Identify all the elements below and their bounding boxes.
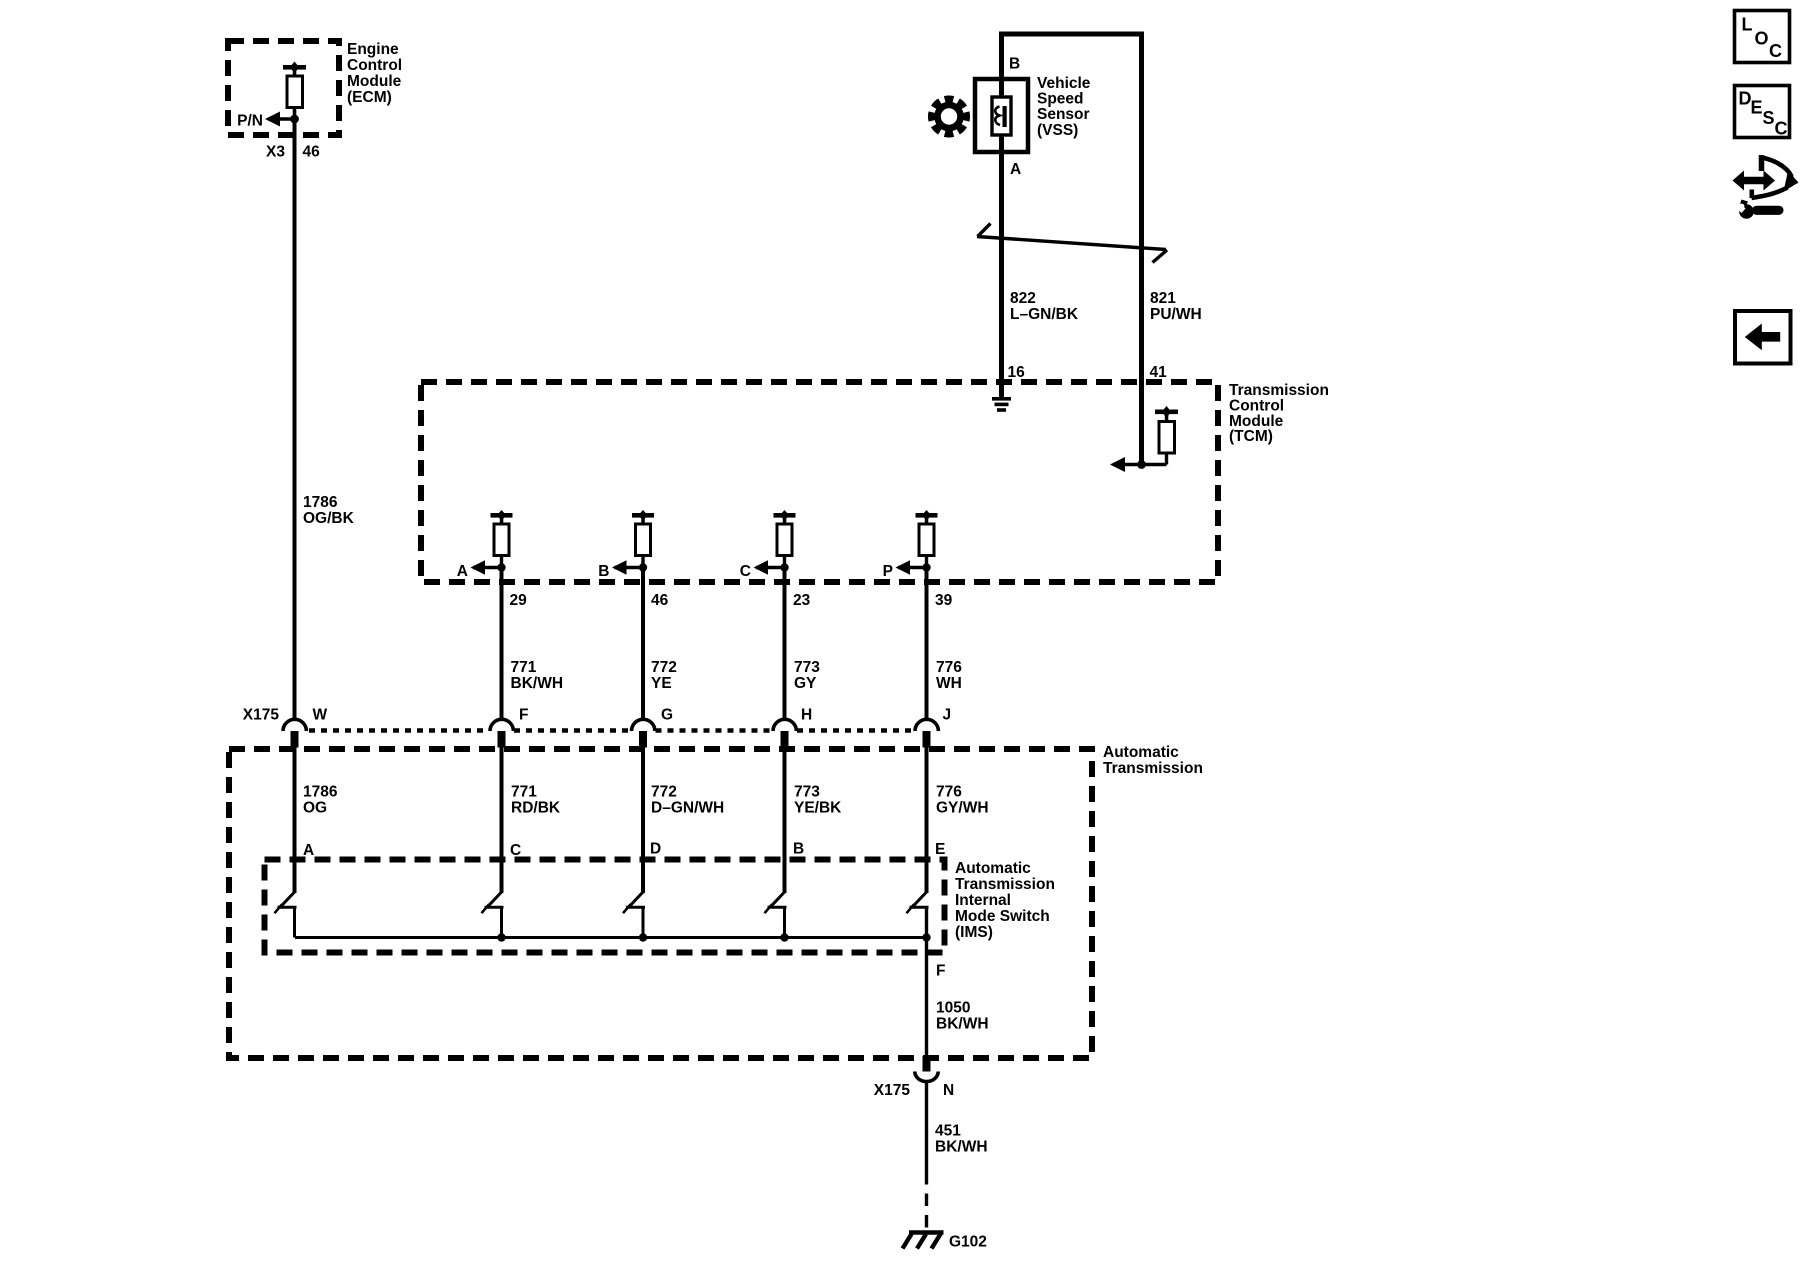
svg-text:773: 773 xyxy=(794,784,820,801)
resistor TCM pin41 pull-up xyxy=(1155,406,1178,465)
svg-text:39: 39 xyxy=(935,592,953,609)
resistor TCM pin46 xyxy=(632,510,654,568)
svg-text:BK/WH: BK/WH xyxy=(936,1016,989,1033)
wire 773 YE/BK (H to switch B) xyxy=(783,747,787,893)
wire labels above X175 xyxy=(511,659,963,692)
svg-text:GY: GY xyxy=(794,675,817,692)
svg-text:G: G xyxy=(661,707,673,724)
svg-text:(TCM): (TCM) xyxy=(1229,428,1273,445)
wire 1786 OG (W to switch A) xyxy=(293,747,297,893)
svg-text:RD/BK: RD/BK xyxy=(511,800,561,817)
node bus B xyxy=(780,933,788,941)
svg-text:(VSS): (VSS) xyxy=(1037,122,1078,139)
resistor TCM pin39 xyxy=(916,510,938,568)
Automatic Transmission box xyxy=(229,749,1092,1058)
svg-text:822: 822 xyxy=(1010,290,1036,307)
harness continuation slash xyxy=(977,224,1167,263)
wire TCM pin41 internal xyxy=(1113,463,1167,466)
wire 776 (pin39 to X175 J) xyxy=(925,568,929,720)
switch D (IMS) xyxy=(623,892,645,938)
svg-text:451: 451 xyxy=(935,1123,961,1140)
gear icon (VSS reluctor wheel) xyxy=(928,95,970,137)
arrow TCM pin41 xyxy=(1110,457,1125,472)
svg-text:773: 773 xyxy=(794,659,820,676)
svg-text:23: 23 xyxy=(793,592,811,609)
svg-text:D: D xyxy=(650,841,661,858)
node junction pin39 xyxy=(922,563,930,571)
wire 1050 BK/WH (bus to X175 N) xyxy=(925,907,928,1057)
icon DESC box xyxy=(1735,86,1790,139)
label wire 822 xyxy=(1010,290,1079,323)
svg-text:F: F xyxy=(519,707,528,724)
svg-text:BK/WH: BK/WH xyxy=(511,675,564,692)
connector terminal J xyxy=(915,719,938,747)
svg-text:821: 821 xyxy=(1150,290,1176,307)
pin number labels TCM bottom xyxy=(510,592,953,609)
wire 451 BK/WH xyxy=(925,1082,928,1173)
node bus D xyxy=(639,933,647,941)
svg-text:X175: X175 xyxy=(874,1082,911,1099)
arrow C TCM pin23 xyxy=(754,560,785,574)
node bus C xyxy=(497,933,505,941)
arrow P TCM pin39 xyxy=(896,560,927,574)
node junction pin46 xyxy=(639,563,647,571)
svg-text:772: 772 xyxy=(651,784,677,801)
switch C (IMS) xyxy=(482,892,504,938)
node ECM junction xyxy=(290,115,299,124)
svg-text:41: 41 xyxy=(1150,364,1168,381)
label wire 451 xyxy=(935,1123,988,1156)
svg-text:A: A xyxy=(303,842,314,859)
resistor TCM pin29 xyxy=(491,510,513,568)
svg-text:Module: Module xyxy=(347,73,402,90)
icon LOC box xyxy=(1735,11,1790,63)
svg-text:L: L xyxy=(1742,15,1753,35)
wire 773 (pin23 to X175 H) xyxy=(783,568,787,720)
svg-text:776: 776 xyxy=(936,659,962,676)
VSS sensor box xyxy=(975,79,1028,152)
svg-text:771: 771 xyxy=(511,784,537,801)
ground G102 (chassis) xyxy=(903,1233,944,1249)
svg-text:46: 46 xyxy=(303,144,321,161)
svg-text:D–GN/WH: D–GN/WH xyxy=(651,800,724,817)
icon connector-repair (double arrow, hook arrow, wrench) xyxy=(1733,155,1799,219)
svg-text:F: F xyxy=(936,963,945,980)
wire 771 RD/BK (F to switch C) xyxy=(500,747,504,893)
svg-text:B: B xyxy=(793,841,804,858)
node junction pin41 xyxy=(1137,460,1146,469)
wire VSS top loop xyxy=(1002,34,1142,465)
label wire 1786 OG/BK xyxy=(303,494,355,527)
switch E (IMS) xyxy=(907,892,929,938)
resistor TCM pin23 xyxy=(774,510,796,568)
wire P/N arrow xyxy=(265,112,295,127)
svg-text:G102: G102 xyxy=(949,1234,987,1251)
svg-text:P/N: P/N xyxy=(237,113,263,130)
svg-text:Automatic: Automatic xyxy=(1103,744,1179,761)
svg-text:J: J xyxy=(943,707,952,724)
svg-text:772: 772 xyxy=(651,659,677,676)
svg-text:Mode Switch: Mode Switch xyxy=(955,908,1050,925)
IMS label xyxy=(955,860,1055,941)
svg-text:L–GN/BK: L–GN/BK xyxy=(1010,306,1079,323)
svg-text:OG/BK: OG/BK xyxy=(303,510,355,527)
wire through VSS xyxy=(999,77,1004,399)
svg-text:Internal: Internal xyxy=(955,892,1011,909)
svg-text:1786: 1786 xyxy=(303,494,338,511)
svg-text:Automatic: Automatic xyxy=(955,860,1031,877)
switch B (IMS) xyxy=(765,892,787,938)
svg-text:S: S xyxy=(1763,108,1775,128)
TCM box (Transmission Control Module) xyxy=(421,382,1218,582)
svg-text:46: 46 xyxy=(651,592,669,609)
resistor ECM internal (P/N pull-up) xyxy=(283,62,306,120)
svg-text:Transmission: Transmission xyxy=(955,876,1055,893)
svg-text:H: H xyxy=(801,707,812,724)
svg-text:BK/WH: BK/WH xyxy=(935,1139,988,1156)
wire labels inside AT box xyxy=(303,784,989,817)
svg-text:B: B xyxy=(1009,56,1020,73)
svg-text:771: 771 xyxy=(511,659,537,676)
VSS label xyxy=(1037,75,1091,139)
svg-text:W: W xyxy=(313,707,328,724)
svg-text:Control: Control xyxy=(347,57,402,74)
svg-text:N: N xyxy=(943,1082,954,1099)
Automatic Transmission label xyxy=(1103,744,1203,777)
node bus E xyxy=(922,933,930,941)
svg-text:E: E xyxy=(1751,98,1763,118)
label wire 821 xyxy=(1150,290,1202,323)
svg-text:Transmission: Transmission xyxy=(1229,382,1329,399)
svg-text:Sensor: Sensor xyxy=(1037,106,1090,123)
ECM box (Engine Control Module) xyxy=(228,41,339,135)
wire 1786 OG/BK (ECM to X175 W) xyxy=(293,119,297,719)
svg-text:(IMS): (IMS) xyxy=(955,924,993,941)
TCM label xyxy=(1229,382,1329,445)
svg-text:C: C xyxy=(1775,119,1788,139)
svg-text:YE/BK: YE/BK xyxy=(794,800,842,817)
svg-text:A: A xyxy=(1010,161,1021,178)
node junction pin29 xyxy=(497,563,505,571)
ground TCM pin16 (signal ground) xyxy=(992,397,1011,412)
svg-text:1786: 1786 xyxy=(303,784,338,801)
svg-text:X3: X3 xyxy=(266,144,285,161)
svg-text:Vehicle: Vehicle xyxy=(1037,75,1091,92)
svg-text:A: A xyxy=(457,563,468,580)
svg-text:Transmission: Transmission xyxy=(1103,760,1203,777)
connector terminal H xyxy=(773,719,796,747)
svg-text:C: C xyxy=(740,563,751,580)
svg-text:1050: 1050 xyxy=(936,1000,970,1017)
svg-text:O: O xyxy=(1755,29,1769,49)
connector terminal W xyxy=(283,719,306,747)
svg-text:776: 776 xyxy=(936,784,962,801)
IMS pin letters xyxy=(303,841,945,860)
icon back arrow box xyxy=(1735,311,1791,364)
svg-text:(ECM): (ECM) xyxy=(347,89,392,106)
svg-text:WH: WH xyxy=(936,675,962,692)
svg-text:OG: OG xyxy=(303,800,327,817)
connector terminal G xyxy=(632,719,655,747)
svg-text:Engine: Engine xyxy=(347,41,399,58)
svg-text:GY/WH: GY/WH xyxy=(936,800,989,817)
wire 772 (pin46 to X175 G) xyxy=(641,568,645,720)
connector terminal N (X175) xyxy=(915,1056,938,1082)
wire 771 (pin29 to X175 F) xyxy=(500,568,504,720)
connector terminal F xyxy=(490,719,513,747)
svg-text:16: 16 xyxy=(1008,364,1026,381)
node junction pin23 xyxy=(780,563,788,571)
svg-text:C: C xyxy=(1769,41,1782,61)
VSS pickup element xyxy=(992,97,1011,135)
wire 772 D-GN/WH (G to switch D) xyxy=(641,747,645,893)
wire dashed to G102 xyxy=(925,1172,928,1231)
label wire 1050 xyxy=(936,1000,989,1033)
arrow B TCM pin46 xyxy=(612,560,643,574)
svg-text:P: P xyxy=(883,563,893,580)
svg-text:X175: X175 xyxy=(243,707,280,724)
wire IMS common bus xyxy=(295,936,927,939)
connector X175 inline dotted line xyxy=(309,728,914,732)
ECM label xyxy=(347,41,402,106)
wire 776 GY/WH (J to switch E) xyxy=(925,747,929,893)
IMS box (Internal Mode Switch) xyxy=(265,860,945,953)
svg-text:E: E xyxy=(935,841,945,858)
connector X3 pin 46 labels xyxy=(266,144,320,161)
svg-text:29: 29 xyxy=(510,592,528,609)
svg-text:PU/WH: PU/WH xyxy=(1150,306,1202,323)
switch A (IMS) xyxy=(275,892,297,938)
svg-text:Speed: Speed xyxy=(1037,91,1084,108)
svg-text:C: C xyxy=(510,842,521,859)
svg-text:B: B xyxy=(598,563,609,580)
arrow A TCM pin29 xyxy=(471,560,502,574)
svg-text:YE: YE xyxy=(651,675,672,692)
